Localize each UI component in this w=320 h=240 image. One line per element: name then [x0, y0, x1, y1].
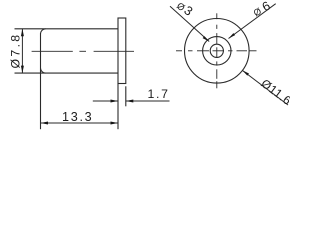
svg-text:13.3: 13.3: [62, 110, 93, 124]
svg-text:1.7: 1.7: [147, 87, 169, 101]
svg-text:Ø7.8: Ø7.8: [8, 33, 22, 69]
